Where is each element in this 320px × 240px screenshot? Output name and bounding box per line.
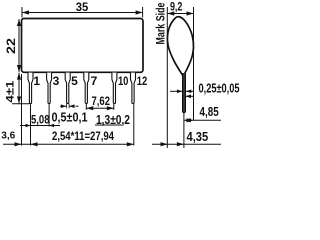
dim 35 extension left [21, 7, 23, 18]
seating line [12, 103, 31, 105]
svg-text:22: 22 [6, 38, 18, 54]
pin7 extension down [85, 104, 87, 110]
pin12 extension down [133, 104, 135, 146]
pin 3 [47, 73, 52, 104]
dim 22 line [17, 19, 21, 72]
pin 12 [131, 73, 136, 104]
svg-text:5,08: 5,08 [31, 115, 50, 127]
pin 5 [65, 73, 70, 104]
dim 1,3±0,2 line [95, 124, 122, 126]
pin 1 [28, 73, 33, 104]
dim 7,62 line [86, 106, 114, 110]
svg-text:5: 5 [71, 74, 78, 88]
dim 4±1 line [17, 73, 21, 104]
dim 35 extension right [142, 7, 144, 18]
svg-text:0,5±0,1: 0,5±0,1 [52, 110, 88, 124]
pin 10 [112, 73, 117, 104]
svg-text:0,25±0,05: 0,25±0,05 [199, 81, 240, 96]
svg-text:10: 10 [118, 74, 129, 88]
dim 0,25±0,05 arrows [170, 90, 194, 94]
svg-text:3,6: 3,6 [1, 131, 15, 142]
svg-text:4±1: 4±1 [5, 81, 17, 103]
svg-text:2,54*11=27,94: 2,54*11=27,94 [52, 131, 114, 143]
pin3 extension down [48, 104, 50, 127]
svg-text:4,85: 4,85 [200, 105, 219, 119]
svg-text:9,2: 9,2 [170, 2, 183, 14]
side pin center extension down [183, 113, 185, 148]
svg-text:12: 12 [137, 74, 148, 88]
dim 5,08 line [20, 124, 60, 127]
svg-text:3: 3 [53, 74, 60, 88]
dim 0,5±0,1 arrows at pin5 rod [60, 104, 79, 109]
body left extension down [21, 74, 23, 146]
svg-text:7: 7 [91, 74, 98, 88]
svg-text:4,35: 4,35 [187, 130, 209, 144]
pin 7 [84, 73, 89, 104]
side view right extension line [193, 7, 195, 121]
side body lens profile [167, 17, 193, 77]
svg-text:1: 1 [33, 74, 40, 88]
leader arrow to pin right edge [186, 95, 194, 99]
svg-text:35: 35 [76, 0, 89, 14]
dim 4,35 line [152, 142, 221, 146]
side view left extension line [166, 7, 168, 148]
dim 35 line [22, 10, 143, 14]
body outline front view [22, 19, 144, 73]
dim 9,2 line [167, 11, 193, 15]
bottom dimension line [3, 142, 134, 146]
pin10 extension down [113, 104, 115, 110]
dim 4,85 line [184, 118, 221, 122]
side view pin [183, 73, 186, 113]
svg-text:Mark Side: Mark Side [153, 2, 167, 44]
pin1 extension down [30, 105, 32, 146]
